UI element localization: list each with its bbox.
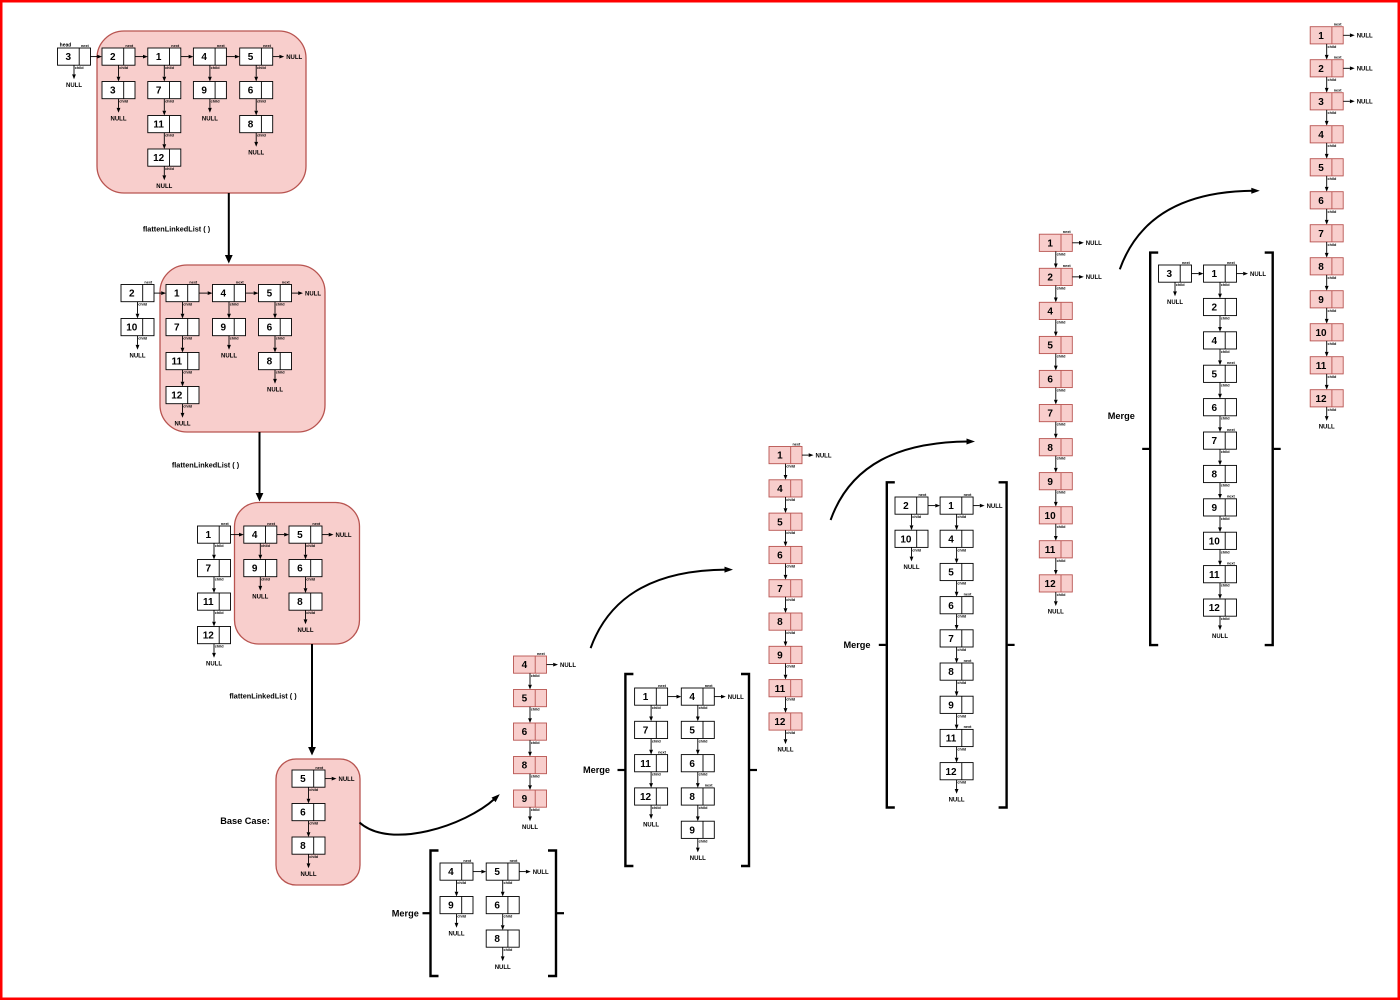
container level-3 list xyxy=(235,503,360,645)
node C4-7 (final list) xyxy=(1310,225,1343,247)
svg-text:child: child xyxy=(211,66,221,70)
wire C4 10.child -> 11 xyxy=(1325,341,1329,357)
svg-text:8: 8 xyxy=(948,667,954,678)
svg-text:child: child xyxy=(257,134,267,138)
node C4-3 (final list) xyxy=(1310,89,1343,115)
svg-text:NULL: NULL xyxy=(560,663,576,669)
curved arrow merge result -> flattened chain 3 xyxy=(831,439,975,521)
svg-text:9: 9 xyxy=(522,794,528,805)
svg-text:4: 4 xyxy=(689,692,695,703)
node M4-9 xyxy=(1204,495,1237,521)
svg-text:7: 7 xyxy=(1318,229,1324,240)
svg-text:child: child xyxy=(786,465,796,469)
svg-text:9: 9 xyxy=(448,901,454,912)
wire C3 10.child -> 11 xyxy=(1054,524,1058,541)
svg-text:7: 7 xyxy=(777,584,783,595)
svg-text:child: child xyxy=(138,303,148,307)
pointer L2 10.child -> NULL xyxy=(130,336,146,360)
svg-text:child: child xyxy=(786,731,796,735)
svg-text:Merge: Merge xyxy=(843,640,870,650)
node L1-1 xyxy=(148,44,181,70)
svg-text:child: child xyxy=(1327,408,1337,412)
wire M4 10.child -> 11 xyxy=(1218,549,1222,565)
svg-text:7: 7 xyxy=(206,564,212,575)
svg-text:NULL: NULL xyxy=(1357,100,1373,106)
svg-text:child: child xyxy=(1221,383,1231,387)
pointer L1 12.child -> NULL xyxy=(156,166,172,190)
svg-text:9: 9 xyxy=(689,825,695,836)
svg-text:5: 5 xyxy=(522,694,528,705)
wire M4 7.child -> 8 xyxy=(1218,449,1222,465)
svg-text:11: 11 xyxy=(1045,545,1056,556)
svg-text:NULL: NULL xyxy=(156,184,172,190)
svg-text:child: child xyxy=(1327,243,1337,247)
node M3-6 xyxy=(940,592,973,618)
svg-text:9: 9 xyxy=(1318,295,1324,306)
wire C4 4.child -> 5 xyxy=(1325,143,1329,159)
pointer C1 4.next -> NULL xyxy=(547,663,577,669)
svg-text:12: 12 xyxy=(774,717,786,728)
svg-text:9: 9 xyxy=(252,564,258,575)
svg-text:next: next xyxy=(171,44,180,48)
curved arrow merge result -> final flattened list xyxy=(1120,188,1260,269)
node M2-4 xyxy=(681,684,714,710)
node M2-7 xyxy=(635,721,668,743)
svg-text:child: child xyxy=(1176,283,1186,287)
node M4-7 xyxy=(1204,428,1237,454)
svg-text:4: 4 xyxy=(221,289,227,300)
svg-text:NULL: NULL xyxy=(130,353,146,359)
wire L1 6.child -> 8 xyxy=(254,99,258,116)
svg-text:next: next xyxy=(125,44,134,48)
node C1-6 (flattened) xyxy=(514,723,547,745)
svg-text:flattenLinkedList ( ): flattenLinkedList ( ) xyxy=(172,460,240,469)
svg-text:child: child xyxy=(1327,276,1337,280)
bracket M3 left xyxy=(887,482,895,807)
svg-text:child: child xyxy=(699,773,709,777)
svg-text:child: child xyxy=(261,578,271,582)
svg-text:child: child xyxy=(306,611,316,615)
tick M1 left xyxy=(423,912,430,914)
svg-text:NULL: NULL xyxy=(286,55,302,61)
bracket M1 right xyxy=(548,851,556,977)
bracket M1 left xyxy=(431,851,439,977)
wire L2 7.child -> 11 xyxy=(181,336,185,353)
svg-text:NULL: NULL xyxy=(1086,275,1102,281)
svg-text:child: child xyxy=(1221,417,1231,421)
svg-text:9: 9 xyxy=(221,323,227,334)
svg-text:child: child xyxy=(457,915,467,919)
svg-text:child: child xyxy=(230,303,240,307)
pointer C3 2.next -> NULL xyxy=(1072,275,1102,281)
svg-text:5: 5 xyxy=(777,517,783,528)
wire M4 5.child -> 6 xyxy=(1218,382,1222,398)
wire M3 4.child -> 5 xyxy=(955,547,959,563)
pointer C4 1.next -> NULL xyxy=(1343,33,1373,39)
wire C1 6.child -> 8 xyxy=(528,740,532,756)
svg-text:next: next xyxy=(1227,495,1236,499)
svg-text:child: child xyxy=(652,739,662,743)
node L2-5 xyxy=(259,280,292,306)
arrow flattenLinkedList call 2 xyxy=(256,432,264,502)
svg-text:next: next xyxy=(658,684,667,688)
svg-text:next: next xyxy=(267,522,276,526)
node BC-5 xyxy=(292,766,325,792)
svg-text:5: 5 xyxy=(689,726,695,737)
svg-text:5: 5 xyxy=(1047,341,1053,352)
wire C3 4.child -> 5 xyxy=(1054,320,1058,337)
node L2-9 xyxy=(213,319,246,341)
wire M4 9.child -> 10 xyxy=(1218,516,1222,532)
node C2-7 (flattened) xyxy=(769,580,802,602)
svg-text:child: child xyxy=(183,337,193,341)
wire L2 2.child -> 10 xyxy=(136,302,140,319)
pointer L1 8.child -> NULL xyxy=(248,133,264,157)
svg-text:child: child xyxy=(957,515,967,519)
svg-text:next: next xyxy=(1063,264,1072,268)
svg-text:8: 8 xyxy=(689,792,695,803)
node M1-5 xyxy=(486,859,519,885)
node C3-4 (flattened) xyxy=(1039,302,1072,324)
node M3-2 xyxy=(895,493,928,519)
svg-text:8: 8 xyxy=(300,841,306,852)
wire C3 7.child -> 8 xyxy=(1054,422,1058,439)
svg-text:1: 1 xyxy=(1318,31,1324,42)
pointer M1 9.child -> NULL xyxy=(449,914,465,938)
node C1-5 (flattened) xyxy=(514,690,547,712)
pointer BC 8.child -> NULL xyxy=(301,854,317,878)
svg-text:NULL: NULL xyxy=(1357,67,1373,73)
svg-text:next: next xyxy=(964,725,973,729)
svg-text:next: next xyxy=(1182,261,1191,265)
wire L3 6.child -> 8 xyxy=(304,577,308,593)
node M2-5 xyxy=(681,721,714,743)
pointer C4 3.next -> NULL xyxy=(1343,99,1373,105)
node C3-9 (flattened) xyxy=(1039,473,1072,495)
node C2-1 (flattened) xyxy=(769,442,802,468)
svg-text:child: child xyxy=(119,100,129,104)
node L2-6 xyxy=(259,319,292,341)
svg-text:NULL: NULL xyxy=(1319,425,1335,431)
svg-text:12: 12 xyxy=(171,391,183,402)
svg-text:head: head xyxy=(60,43,72,49)
svg-text:9: 9 xyxy=(1047,477,1053,488)
node L2-4 xyxy=(213,280,246,306)
wire C4 1.child -> 2 xyxy=(1325,44,1329,60)
svg-text:next: next xyxy=(315,766,324,770)
svg-text:NULL: NULL xyxy=(301,872,317,878)
svg-text:6: 6 xyxy=(1047,375,1053,386)
svg-text:child: child xyxy=(531,808,541,812)
svg-text:next: next xyxy=(144,280,153,284)
svg-text:12: 12 xyxy=(1315,394,1327,405)
wire L1 2.child -> 3 xyxy=(117,65,121,81)
svg-text:9: 9 xyxy=(201,86,207,97)
wire L1 7.child -> 11 xyxy=(162,99,166,116)
wire L1 3.next -> 2 xyxy=(91,55,103,59)
wire L1 4.child -> 9 xyxy=(208,65,212,81)
svg-text:child: child xyxy=(1327,45,1337,49)
svg-text:child: child xyxy=(1221,617,1231,621)
node L3-8 xyxy=(289,593,322,615)
svg-text:child: child xyxy=(1057,423,1067,427)
pointer L3 9.child -> NULL xyxy=(252,577,268,601)
svg-text:1: 1 xyxy=(1212,269,1218,280)
svg-text:4: 4 xyxy=(522,660,528,671)
svg-text:child: child xyxy=(1221,350,1231,354)
svg-text:child: child xyxy=(699,806,709,810)
svg-text:flattenLinkedList ( ): flattenLinkedList ( ) xyxy=(229,691,297,700)
svg-text:child: child xyxy=(531,775,541,779)
wire L2 4.next -> 5 xyxy=(246,291,259,295)
node L3-7 xyxy=(198,560,231,582)
svg-text:child: child xyxy=(138,337,148,341)
wire C2 6.child -> 7 xyxy=(784,564,788,580)
wire C1 4.child -> 5 xyxy=(528,673,532,689)
svg-text:11: 11 xyxy=(946,734,957,745)
node C3-1 (flattened) xyxy=(1039,230,1072,256)
wire L3 7.child -> 11 xyxy=(212,577,216,593)
tick M2 left xyxy=(618,769,625,771)
svg-text:child: child xyxy=(912,515,922,519)
wire M3 8.child -> 9 xyxy=(955,680,959,696)
svg-text:1: 1 xyxy=(777,451,783,462)
pointer L3 8.child -> NULL xyxy=(298,610,314,634)
wire L2 4.child -> 9 xyxy=(227,302,231,319)
svg-text:child: child xyxy=(786,498,796,502)
svg-text:next: next xyxy=(1227,561,1236,565)
node C2-5 (flattened) xyxy=(769,513,802,535)
wire C4 9.child -> 10 xyxy=(1325,308,1329,324)
pointer L3 5.next -> NULL xyxy=(322,533,352,539)
svg-text:6: 6 xyxy=(948,601,954,612)
svg-text:next: next xyxy=(189,280,198,284)
svg-text:7: 7 xyxy=(1212,436,1218,447)
node L2-11 xyxy=(166,353,199,375)
curved arrow base case -> flattened 5-6-8 list xyxy=(360,794,500,835)
svg-text:1: 1 xyxy=(948,501,954,512)
svg-text:child: child xyxy=(699,839,709,843)
wire L2 1.child -> 7 xyxy=(181,302,185,319)
pointer M1 5.next -> NULL xyxy=(519,870,549,876)
svg-text:3: 3 xyxy=(66,52,72,63)
svg-text:child: child xyxy=(1327,210,1337,214)
svg-text:5: 5 xyxy=(1212,369,1218,380)
wire L3 4.child -> 9 xyxy=(258,543,262,559)
svg-text:child: child xyxy=(309,822,319,826)
svg-text:7: 7 xyxy=(643,726,649,737)
pointer L2 5.next -> NULL xyxy=(292,291,322,297)
wire M2 6.child -> 8 xyxy=(696,772,700,788)
svg-text:child: child xyxy=(531,708,541,712)
node C3-6 (flattened) xyxy=(1039,370,1072,392)
svg-text:child: child xyxy=(215,544,225,548)
svg-text:child: child xyxy=(306,544,316,548)
wire L1 11.child -> 12 xyxy=(162,133,166,149)
wire M3 11.child -> 12 xyxy=(955,747,959,763)
wire M2 1.child -> 7 xyxy=(649,705,653,721)
node C1-9 (flattened) xyxy=(514,790,547,812)
wire C2 4.child -> 5 xyxy=(784,497,788,513)
wire L1 5.child -> 6 xyxy=(254,65,258,81)
svg-text:next: next xyxy=(221,522,230,526)
svg-text:6: 6 xyxy=(248,86,254,97)
wire C4 8.child -> 9 xyxy=(1325,275,1329,291)
tick M1 right xyxy=(557,912,564,914)
curved arrow merge result -> flattened chain 2 xyxy=(591,567,733,649)
svg-text:4: 4 xyxy=(1212,336,1218,347)
wire L2 2.next -> 1 xyxy=(154,291,166,295)
svg-text:NULL: NULL xyxy=(1086,241,1102,247)
node C3-10 (flattened) xyxy=(1039,507,1072,529)
svg-text:5: 5 xyxy=(267,289,273,300)
svg-text:6: 6 xyxy=(1212,403,1218,414)
container base case list xyxy=(276,759,360,885)
svg-text:child: child xyxy=(1221,584,1231,588)
svg-text:8: 8 xyxy=(777,617,783,628)
svg-text:child: child xyxy=(165,167,175,171)
node M2-12 xyxy=(635,788,668,810)
wire BC 6.child -> 8 xyxy=(307,821,311,837)
wire C2 11.child -> 12 xyxy=(784,697,788,713)
svg-text:child: child xyxy=(215,645,225,649)
svg-text:1: 1 xyxy=(156,52,162,63)
svg-text:child: child xyxy=(1327,111,1337,115)
svg-text:child: child xyxy=(183,371,193,375)
node L1-12 xyxy=(148,149,181,171)
wire C3 9.child -> 10 xyxy=(1054,490,1058,507)
svg-text:child: child xyxy=(652,773,662,777)
bracket M2 right xyxy=(741,674,749,866)
wire M3 6.child -> 7 xyxy=(955,614,959,630)
wire M3 9.child -> 11 xyxy=(955,713,959,729)
node L3-1 (outside) xyxy=(198,522,231,548)
svg-text:child: child xyxy=(165,100,175,104)
node M2-1 xyxy=(635,684,668,710)
wire BC 5.child -> 6 xyxy=(307,787,311,803)
svg-text:12: 12 xyxy=(153,153,165,164)
svg-text:7: 7 xyxy=(156,86,162,97)
wire C4 11.child -> 12 xyxy=(1325,374,1329,390)
svg-text:child: child xyxy=(1057,593,1067,597)
svg-text:child: child xyxy=(531,674,541,678)
wire M4 8.child -> 9 xyxy=(1218,483,1222,499)
svg-text:child: child xyxy=(1327,144,1337,148)
svg-text:child: child xyxy=(652,706,662,710)
wire M3 1.child -> 4 xyxy=(955,514,959,530)
svg-text:Merge: Merge xyxy=(583,765,610,775)
svg-text:child: child xyxy=(1327,78,1337,82)
svg-text:child: child xyxy=(306,578,316,582)
svg-text:2: 2 xyxy=(1212,303,1218,314)
node C3-5 (flattened) xyxy=(1039,336,1072,358)
svg-text:child: child xyxy=(183,405,193,409)
svg-text:NULL: NULL xyxy=(533,870,549,876)
svg-text:NULL: NULL xyxy=(298,628,314,634)
arrow flattenLinkedList call 3 xyxy=(308,644,316,756)
pointer L2 12.child -> NULL xyxy=(175,404,191,428)
svg-text:NULL: NULL xyxy=(175,421,191,427)
node C2-12 (flattened) xyxy=(769,713,802,735)
wire C4 2.child -> 3 xyxy=(1325,77,1329,93)
pointer M2 12.child -> NULL xyxy=(643,805,659,829)
svg-text:next: next xyxy=(236,280,245,284)
svg-text:child: child xyxy=(75,66,85,70)
node M4-2 xyxy=(1204,298,1237,320)
bracket M2 left xyxy=(625,674,633,866)
svg-text:NULL: NULL xyxy=(1357,34,1373,40)
node L2-12 xyxy=(166,387,199,409)
svg-text:6: 6 xyxy=(494,901,500,912)
node L1-3b xyxy=(102,82,135,104)
svg-text:child: child xyxy=(957,582,967,586)
svg-text:10: 10 xyxy=(900,534,912,545)
wire M3 7.child -> 8 xyxy=(955,647,959,663)
svg-text:10: 10 xyxy=(1209,536,1221,547)
node C4-4 (final list) xyxy=(1310,126,1343,148)
node M4-5 xyxy=(1204,361,1237,387)
wire C3 1.child -> 2 xyxy=(1054,251,1058,268)
pointer L3 12.child -> NULL xyxy=(206,644,222,668)
svg-text:child: child xyxy=(165,66,175,70)
svg-text:next: next xyxy=(81,44,90,48)
wire M4 6.child -> 7 xyxy=(1218,416,1222,432)
svg-text:child: child xyxy=(1327,177,1337,181)
svg-text:next: next xyxy=(964,592,973,596)
node C4-9 (final list) xyxy=(1310,291,1343,313)
wire L2 1.next -> 4 xyxy=(199,291,213,295)
svg-text:11: 11 xyxy=(1209,570,1220,581)
pointer M3 1.next -> NULL xyxy=(973,504,1003,510)
svg-text:11: 11 xyxy=(1316,361,1327,372)
svg-text:child: child xyxy=(1327,375,1337,379)
wire C2 9.child -> 11 xyxy=(784,664,788,680)
svg-text:child: child xyxy=(957,714,967,718)
svg-text:1: 1 xyxy=(1047,238,1053,249)
svg-text:NULL: NULL xyxy=(1167,300,1183,306)
svg-text:3: 3 xyxy=(110,86,116,97)
svg-text:8: 8 xyxy=(1212,470,1218,481)
node L1-11 xyxy=(148,116,181,138)
node C3-2 (flattened) xyxy=(1039,264,1072,290)
svg-text:7: 7 xyxy=(174,323,180,334)
svg-text:child: child xyxy=(261,544,271,548)
svg-text:NULL: NULL xyxy=(252,594,268,600)
node L3-5 xyxy=(289,522,322,548)
svg-text:child: child xyxy=(1057,457,1067,461)
svg-text:child: child xyxy=(309,855,319,859)
wire C3 6.child -> 7 xyxy=(1054,388,1058,405)
svg-text:8: 8 xyxy=(297,597,303,608)
wire L3 1.child -> 7 xyxy=(212,543,216,559)
svg-text:NULL: NULL xyxy=(111,116,127,122)
svg-text:NULL: NULL xyxy=(206,661,222,667)
pointer C3 1.next -> NULL xyxy=(1072,241,1102,247)
node M2-8 xyxy=(681,784,714,810)
svg-text:2: 2 xyxy=(110,52,116,63)
svg-text:next: next xyxy=(705,684,714,688)
pointer C3 12.child -> NULL xyxy=(1048,592,1064,616)
wire M1 4.next -> 5 xyxy=(473,870,486,874)
svg-text:5: 5 xyxy=(248,52,254,63)
node M4-11 xyxy=(1204,561,1237,587)
svg-text:5: 5 xyxy=(494,867,500,878)
node M2-11 xyxy=(635,750,668,776)
svg-text:4: 4 xyxy=(201,52,207,63)
svg-text:next: next xyxy=(463,859,472,863)
svg-text:child: child xyxy=(786,598,796,602)
svg-text:child: child xyxy=(957,548,967,552)
